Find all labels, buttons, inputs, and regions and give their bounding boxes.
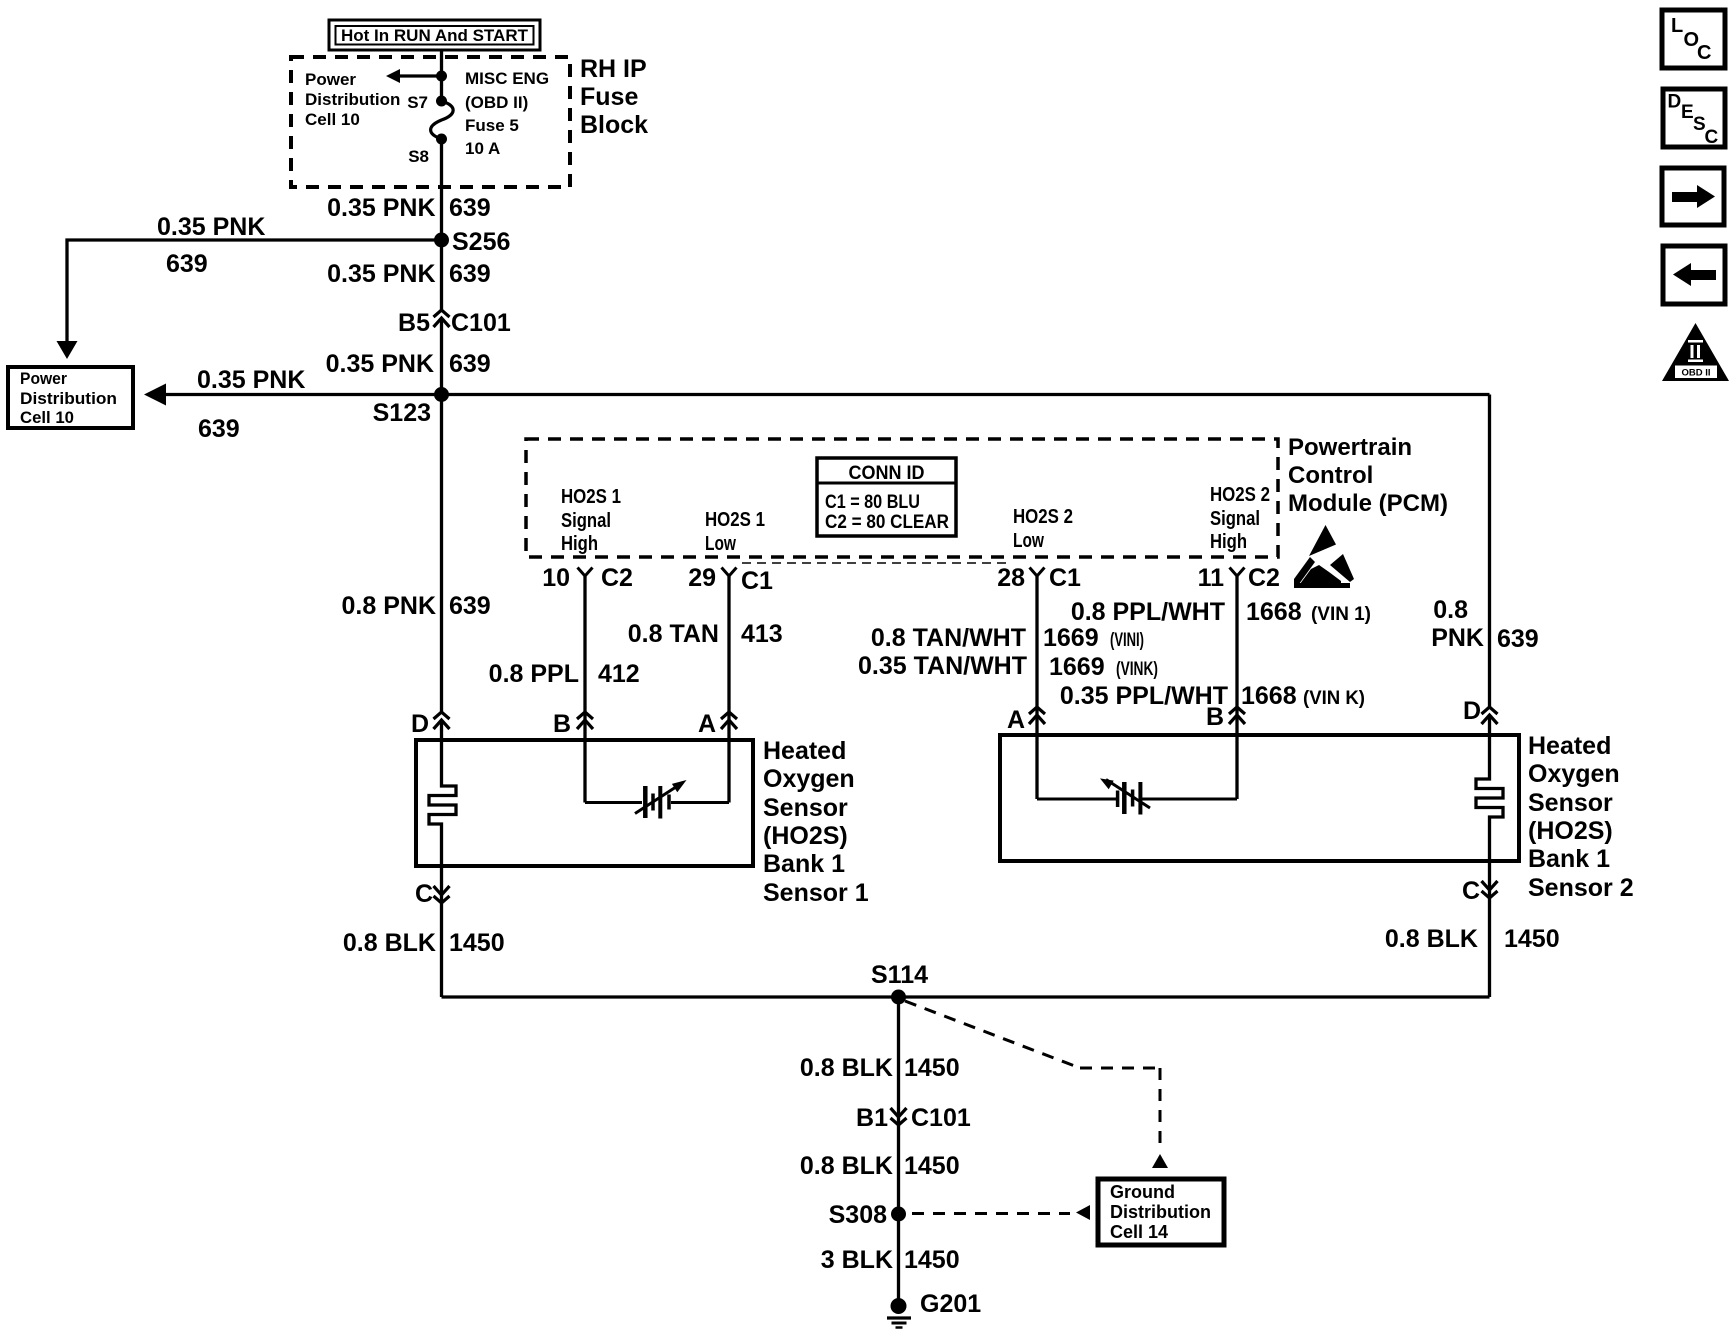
svg-text:28: 28 — [997, 564, 1025, 592]
svg-text:Control: Control — [1288, 462, 1373, 489]
svg-text:C101: C101 — [911, 1104, 971, 1132]
svg-text:Heated: Heated — [1528, 732, 1611, 760]
svg-text:Hot In RUN And START: Hot In RUN And START — [341, 26, 529, 45]
svg-text:C1: C1 — [741, 567, 773, 595]
svg-text:D: D — [1463, 697, 1481, 725]
svg-text:Block: Block — [580, 111, 648, 139]
svg-text:Cell 10: Cell 10 — [305, 110, 360, 129]
svg-text:Low: Low — [1013, 530, 1044, 552]
svg-text:B1: B1 — [856, 1104, 888, 1132]
svg-text:1450: 1450 — [904, 1152, 960, 1180]
svg-text:Cell 14: Cell 14 — [1110, 1222, 1168, 1242]
svg-text:0.8 TAN: 0.8 TAN — [628, 620, 719, 648]
svg-text:0.8 BLK: 0.8 BLK — [800, 1152, 893, 1180]
svg-text:Powertrain: Powertrain — [1288, 434, 1412, 461]
svg-text:Module (PCM): Module (PCM) — [1288, 490, 1448, 517]
svg-text:S256: S256 — [452, 228, 510, 256]
svg-text:(OBD II): (OBD II) — [465, 93, 528, 112]
svg-text:1668: 1668 — [1241, 682, 1297, 710]
svg-text:0.8 BLK: 0.8 BLK — [1385, 925, 1478, 953]
svg-text:PNK: PNK — [1431, 624, 1484, 652]
svg-text:639: 639 — [449, 350, 491, 378]
svg-text:S308: S308 — [829, 1201, 887, 1229]
svg-text:S7: S7 — [407, 93, 428, 112]
svg-text:639: 639 — [449, 194, 491, 222]
svg-text:E: E — [1681, 102, 1694, 123]
svg-text:3 BLK: 3 BLK — [821, 1246, 893, 1274]
svg-text:Sensor 2: Sensor 2 — [1528, 874, 1634, 902]
svg-text:C: C — [1462, 877, 1480, 905]
svg-text:S114: S114 — [871, 961, 928, 989]
svg-text:Signal: Signal — [1210, 508, 1260, 530]
svg-text:Cell 10: Cell 10 — [20, 408, 74, 427]
svg-text:0.35 PNK: 0.35 PNK — [326, 350, 434, 378]
svg-text:639: 639 — [449, 260, 491, 288]
svg-text:1450: 1450 — [904, 1246, 960, 1274]
svg-text:Power: Power — [305, 70, 356, 89]
svg-text:639: 639 — [449, 592, 491, 620]
svg-text:412: 412 — [598, 660, 640, 688]
svg-text:(VIN 1): (VIN 1) — [1311, 604, 1371, 625]
svg-text:Power: Power — [20, 369, 67, 388]
svg-text:10 A: 10 A — [465, 139, 500, 158]
svg-text:0.35 PPL/WHT: 0.35 PPL/WHT — [1060, 682, 1228, 710]
svg-text:639: 639 — [166, 250, 208, 278]
svg-text:0.35 TAN/WHT: 0.35 TAN/WHT — [858, 652, 1027, 680]
svg-text:CONN ID: CONN ID — [849, 463, 925, 484]
svg-text:413: 413 — [741, 620, 783, 648]
svg-text:Signal: Signal — [561, 510, 611, 532]
svg-text:OBD II: OBD II — [1681, 368, 1710, 379]
svg-text:B: B — [553, 710, 571, 738]
svg-text:639: 639 — [198, 415, 240, 443]
svg-text:Distribution: Distribution — [20, 389, 117, 408]
svg-text:C2 = 80 CLEAR: C2 = 80 CLEAR — [825, 512, 949, 533]
svg-text:D: D — [1668, 92, 1682, 113]
svg-text:(VINI): (VINI) — [1110, 630, 1144, 651]
svg-text:Distribution: Distribution — [305, 90, 400, 109]
svg-text:Oxygen: Oxygen — [1528, 760, 1620, 788]
svg-text:Bank 1: Bank 1 — [1528, 845, 1610, 873]
svg-text:Fuse 5: Fuse 5 — [465, 116, 519, 135]
svg-text:(VIN K): (VIN K) — [1303, 688, 1365, 709]
svg-text:Sensor: Sensor — [763, 794, 848, 822]
svg-text:0.8 PNK: 0.8 PNK — [342, 592, 436, 620]
svg-text:1669: 1669 — [1049, 653, 1105, 681]
svg-text:(VINK): (VINK) — [1116, 659, 1158, 680]
svg-text:0.8 TAN/WHT: 0.8 TAN/WHT — [871, 624, 1026, 652]
svg-text:D: D — [411, 710, 429, 738]
svg-text:Sensor: Sensor — [1528, 789, 1613, 817]
svg-text:0.8 BLK: 0.8 BLK — [800, 1054, 893, 1082]
svg-text:0.8: 0.8 — [1433, 596, 1468, 624]
svg-text:0.8 PPL/WHT: 0.8 PPL/WHT — [1071, 598, 1225, 626]
svg-text:A: A — [698, 710, 716, 738]
svg-text:C1: C1 — [1049, 564, 1081, 592]
svg-text:0.8 PPL: 0.8 PPL — [489, 660, 579, 688]
svg-text:HO2S 2: HO2S 2 — [1013, 506, 1073, 528]
svg-text:L: L — [1671, 15, 1683, 37]
svg-text:S8: S8 — [408, 147, 429, 166]
svg-text:1668: 1668 — [1246, 598, 1302, 626]
svg-text:0.35 PNK: 0.35 PNK — [197, 366, 305, 394]
svg-text:Distribution: Distribution — [1110, 1202, 1211, 1222]
svg-text:S123: S123 — [373, 399, 431, 427]
svg-text:RH IP: RH IP — [580, 55, 647, 83]
svg-text:C1 = 80 BLU: C1 = 80 BLU — [825, 492, 920, 513]
svg-text:HO2S 2: HO2S 2 — [1210, 484, 1270, 506]
svg-text:C2: C2 — [1248, 564, 1280, 592]
svg-text:C: C — [1697, 42, 1711, 64]
svg-text:1450: 1450 — [904, 1054, 960, 1082]
svg-text:C: C — [1705, 127, 1719, 148]
svg-text:1450: 1450 — [1504, 925, 1560, 953]
svg-text:Ground: Ground — [1110, 1182, 1175, 1202]
svg-text:29: 29 — [688, 564, 716, 592]
svg-text:C101: C101 — [451, 309, 511, 337]
svg-text:Sensor 1: Sensor 1 — [763, 879, 869, 907]
svg-text:Bank 1: Bank 1 — [763, 850, 845, 878]
svg-text:High: High — [561, 533, 598, 555]
svg-text:C2: C2 — [601, 564, 633, 592]
svg-text:0.35 PNK: 0.35 PNK — [157, 213, 265, 241]
svg-text:0.35 PNK: 0.35 PNK — [327, 194, 435, 222]
svg-text:High: High — [1210, 531, 1247, 553]
svg-text:Low: Low — [705, 533, 736, 555]
svg-text:Heated: Heated — [763, 737, 846, 765]
svg-text:B5: B5 — [398, 309, 430, 337]
svg-text:HO2S 1: HO2S 1 — [705, 509, 765, 531]
svg-text:Fuse: Fuse — [580, 83, 638, 111]
svg-text:1450: 1450 — [449, 929, 505, 957]
svg-text:0.8 BLK: 0.8 BLK — [343, 929, 436, 957]
svg-text:(HO2S): (HO2S) — [1528, 817, 1613, 845]
svg-text:B: B — [1206, 703, 1224, 731]
svg-text:10: 10 — [542, 564, 570, 592]
svg-text:1669: 1669 — [1043, 624, 1099, 652]
svg-text:(HO2S): (HO2S) — [763, 822, 848, 850]
svg-text:A: A — [1007, 706, 1025, 734]
svg-text:HO2S 1: HO2S 1 — [561, 486, 621, 508]
svg-text:G201: G201 — [920, 1290, 981, 1318]
svg-text:11: 11 — [1198, 564, 1225, 592]
svg-text:MISC ENG: MISC ENG — [465, 69, 549, 88]
svg-text:C: C — [415, 880, 433, 908]
svg-text:639: 639 — [1497, 625, 1539, 653]
svg-text:Oxygen: Oxygen — [763, 765, 855, 793]
svg-text:0.35 PNK: 0.35 PNK — [327, 260, 435, 288]
